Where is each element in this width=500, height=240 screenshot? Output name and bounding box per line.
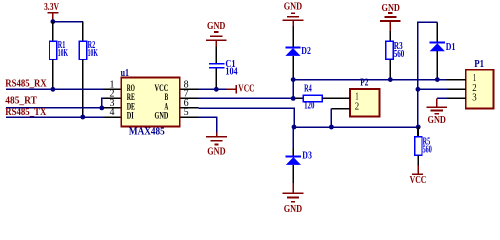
op-amp U1 MAX485 body [121,68,180,138]
svg-text:GND: GND [284,203,302,215]
node R3 junction [388,77,393,82]
svg-text:485_RT: 485_RT [5,95,37,106]
svg-text:P1: P1 [474,59,484,70]
resistor R2 [79,22,98,117]
op-amp U1 MAX485 pins right [180,80,199,119]
resistor R4 [296,84,331,112]
wire 3.3V rail [53,21,83,23]
svg-text:R4: R4 [304,84,312,95]
power VCC below R5 [410,166,427,186]
diode D1 [430,22,456,79]
svg-text:560: 560 [423,144,432,155]
svg-text:D3: D3 [302,150,312,161]
node A/R5 junction [416,125,421,130]
wire P1 pin3 to ground [437,97,447,99]
node C1 junction [214,87,219,92]
capacitor C1 [209,47,238,90]
svg-text:MAX485: MAX485 [129,127,165,138]
svg-text:10K: 10K [88,48,98,59]
svg-text:P2: P2 [360,78,368,89]
svg-text:4: 4 [110,107,115,118]
resistor R1 [50,22,69,90]
power 3.3V [44,2,60,22]
svg-text:VCC: VCC [410,174,427,186]
wire B line horizontal [293,79,446,81]
ground below P1 [427,98,448,126]
wire pin5 to ground [198,117,216,133]
op-amp U1 MAX485 pins left [103,80,121,119]
wire A line horizontal [294,126,418,128]
wire pin7 to R4 [198,97,293,99]
wire RE/DE tie [102,98,104,108]
diode D3 [286,127,312,183]
node D2 anode junction [291,77,296,82]
connector P1 [447,59,494,108]
ground above D2 [283,1,304,27]
svg-text:GND: GND [428,114,446,126]
connector P2 [331,78,380,117]
node rail junction [51,19,56,24]
node P2 pin2 junction [329,125,334,130]
wire RS485_TX [6,116,103,118]
svg-text:2: 2 [355,101,359,112]
svg-text:GND: GND [155,111,169,121]
svg-text:u1: u1 [121,68,129,79]
svg-text:104: 104 [225,66,237,77]
node A/P1 pin2 junction [416,87,421,92]
node R2/TX junction [80,115,85,120]
node A corner junction [292,125,297,130]
wire RS485_RX [6,88,103,90]
wire P1 pin2 [418,88,447,90]
wire 485_RT [6,107,103,109]
node R1/RX junction [51,87,56,92]
wire B branch vertical [292,80,294,99]
wire D1 to P1 pin1 [437,79,446,81]
diode D2 [285,26,311,78]
svg-text:GND: GND [207,20,225,32]
wire pin8 to VCC [198,88,226,90]
svg-text:DI: DI [127,111,134,121]
ground below U1 [206,133,227,158]
svg-text:D2: D2 [301,46,311,57]
ground above C1 [206,20,227,47]
svg-text:D1: D1 [446,42,456,53]
svg-text:560: 560 [394,49,405,60]
svg-text:5: 5 [184,107,189,118]
svg-text:3: 3 [472,93,476,104]
svg-text:120: 120 [304,101,314,112]
svg-text:VCC: VCC [238,84,254,95]
svg-text:10K: 10K [58,48,68,59]
node D1 anode junction [435,77,440,82]
wire P2 pin2 down [330,109,332,127]
svg-text:3.3V: 3.3V [44,2,60,13]
ground below D3 [283,183,304,215]
svg-text:RS485_RX: RS485_RX [5,78,47,89]
node RE/DE junction [99,106,104,111]
wire pin6 A elbow [198,108,294,127]
svg-text:GND: GND [207,145,225,157]
power VCC right of pin8 [227,84,255,95]
wire D1 loop [418,22,437,136]
resistor R3 [386,31,405,80]
ground above R3 [380,2,401,31]
svg-text:GND: GND [284,1,302,13]
node B/R4 junction [291,96,296,101]
resistor R5 [415,127,432,166]
